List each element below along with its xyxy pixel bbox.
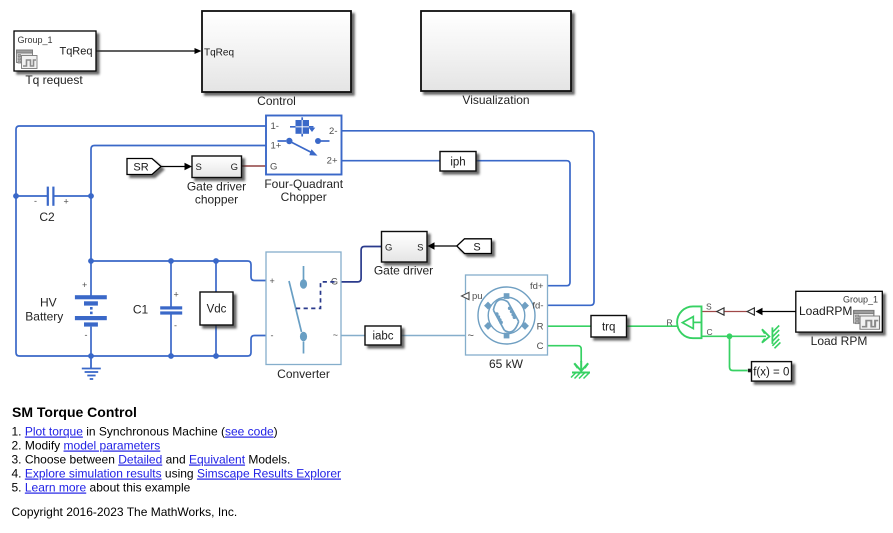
svg-text:3. Choose between Detailed and: 3. Choose between Detailed and Equivalen…	[12, 453, 291, 467]
block Control (subsystem)	[202, 11, 351, 92]
svg-text:5. Learn more about this examp: 5. Learn more about this example	[12, 481, 191, 495]
capacitor C1	[160, 306, 182, 314]
svg-text:-: -	[34, 196, 37, 206]
block Gate driver	[382, 232, 428, 263]
wire: chopper 1+ rail down to battery	[91, 146, 266, 296]
svg-text:chopper: chopper	[195, 193, 238, 207]
svg-text:Visualization: Visualization	[462, 93, 529, 107]
battery HV Battery	[75, 295, 107, 326]
ground mechanical rotational reference (down)	[571, 361, 590, 379]
svg-text:fd-: fd-	[532, 301, 543, 312]
svg-text:65 kW: 65 kW	[489, 357, 524, 371]
label Four-Quadrant Chopper	[264, 177, 343, 204]
capacitor C2	[47, 187, 55, 206]
wire: chopper 2+ through iph to machine fd+	[342, 161, 570, 286]
label C1 polarity	[174, 290, 179, 331]
svg-text:R: R	[537, 322, 544, 333]
block iph (current sensor display)	[440, 152, 476, 172]
wire: green inertia C to references	[702, 335, 767, 337]
svg-text:Gate driver: Gate driver	[374, 264, 433, 278]
wire: SR to gate driver chopper	[161, 166, 185, 168]
node: bus junction dots	[88, 258, 219, 359]
from tag SR	[127, 159, 161, 175]
svg-text:Group_1: Group_1	[18, 35, 53, 45]
svg-text:f(x) = 0: f(x) = 0	[753, 366, 789, 378]
svg-text:LoadRPM: LoadRPM	[799, 304, 852, 318]
machine stator outer circle	[478, 287, 535, 344]
wire: Tq request to Control signal	[97, 48, 202, 54]
svg-text:C: C	[537, 341, 544, 352]
svg-text:G: G	[231, 162, 238, 173]
svg-text:Copyright 2016-2023 The MathWo: Copyright 2016-2023 The MathWorks, Inc.	[12, 505, 238, 519]
svg-text:C: C	[707, 327, 713, 337]
svg-text:1. Plot torque in Synchronous: 1. Plot torque in Synchronous Machine (s…	[12, 425, 278, 439]
ground mechanical rotational reference (right)	[762, 326, 780, 349]
wire: battery bottom to bus	[90, 327, 92, 356]
svg-text:C1: C1	[133, 303, 149, 317]
from tag S	[457, 239, 492, 254]
svg-text:Gate driver: Gate driver	[187, 180, 246, 194]
svg-text:pu: pu	[472, 291, 483, 302]
block Visualization (subsystem)	[421, 11, 571, 91]
svg-text:S: S	[196, 162, 202, 173]
svg-text:2+: 2+	[327, 156, 338, 167]
machine rotor	[493, 300, 518, 333]
annotation list	[12, 425, 342, 495]
node: junction dots C2	[13, 193, 94, 199]
svg-text:R: R	[667, 318, 673, 328]
ground electrical reference	[82, 356, 101, 379]
svg-text:fd+: fd+	[530, 281, 544, 292]
label HV Battery	[25, 296, 63, 324]
block Converter	[266, 252, 341, 365]
svg-text:C2: C2	[39, 210, 55, 224]
svg-text:Battery: Battery	[25, 310, 63, 324]
block Gate driver chopper	[192, 156, 242, 178]
svg-text:-: -	[174, 321, 177, 331]
svg-text:Chopper: Chopper	[281, 190, 327, 204]
wire: dark red gate SR signal	[242, 165, 267, 167]
svg-text:+: +	[174, 290, 179, 300]
svg-text:TqReq: TqReq	[59, 46, 92, 58]
svg-text:+: +	[270, 276, 275, 286]
machine port labels	[472, 281, 544, 352]
svg-text:Vdc: Vdc	[207, 304, 227, 316]
svg-text:-: -	[271, 331, 274, 341]
svg-text:iph: iph	[450, 157, 465, 169]
svg-text:~: ~	[333, 330, 338, 340]
wire: C2 branch	[16, 195, 91, 197]
icon signal builder	[17, 50, 38, 69]
wire: navy gate driver to converter G	[342, 247, 382, 282]
wire: Vdc branch	[215, 261, 217, 356]
icon converter switch	[289, 266, 307, 354]
svg-text:S: S	[417, 243, 423, 254]
svg-text:trq: trq	[602, 322, 615, 334]
svg-text:S: S	[473, 242, 480, 254]
svg-text:Four-Quadrant: Four-Quadrant	[264, 177, 343, 191]
svg-text:~: ~	[468, 330, 474, 342]
svg-text:Converter: Converter	[277, 367, 330, 381]
label Gate driver chopper	[187, 180, 246, 207]
wire: chopper 2- to machine fd-	[342, 131, 594, 305]
block iabc (current sensor display)	[365, 326, 401, 345]
svg-text:G: G	[270, 162, 277, 173]
svg-text:TqReq: TqReq	[204, 47, 234, 58]
svg-text:SR: SR	[133, 162, 148, 174]
block Tq request (Group_1 signal source)	[14, 31, 96, 71]
block f(x)=0 solver	[748, 362, 792, 382]
svg-text:+: +	[64, 197, 69, 207]
svg-text:Group_1: Group_1	[843, 295, 878, 305]
label battery polarity	[82, 280, 88, 340]
wire: green machine C to rotational reference	[548, 346, 581, 362]
machine inner circle	[488, 297, 525, 334]
svg-text:+: +	[82, 280, 87, 290]
block Synchronous Machine 65 kW	[462, 275, 548, 355]
block inertia / motion sensor (green half-disc)	[667, 302, 713, 339]
machine pole markers	[484, 293, 529, 338]
svg-text:2. Modify model parameters: 2. Modify model parameters	[12, 439, 161, 453]
wire: positive DC bus to converter	[91, 261, 266, 281]
svg-text:HV: HV	[40, 296, 57, 310]
wire: green machine R to trq to inertia	[548, 325, 678, 327]
block Four-Quadrant Chopper	[266, 116, 342, 175]
svg-text:-: -	[85, 330, 88, 340]
svg-text:SM Torque Control: SM Torque Control	[12, 404, 137, 420]
svg-text:2-: 2-	[329, 126, 337, 137]
icon chopper bridge	[290, 117, 315, 136]
svg-text:G: G	[385, 243, 392, 254]
block Load RPM (Group_1 signal source)	[796, 291, 883, 332]
svg-text:Load RPM: Load RPM	[811, 334, 868, 348]
svg-text:Tq request: Tq request	[25, 73, 83, 87]
icon signal builder	[854, 310, 880, 329]
node: left DC rail + bottom bus wire	[16, 126, 266, 356]
block Vdc (voltage sensor display)	[200, 292, 233, 325]
wire: converter ~ to machine (light blue) under iabc	[341, 335, 466, 337]
wire: S tag to gate driver	[434, 245, 457, 247]
block trq (torque sensor display)	[591, 316, 627, 338]
svg-text:S: S	[706, 302, 712, 312]
machine pu port arrow	[462, 292, 470, 299]
icon chopper switch	[278, 138, 330, 156]
svg-text:iabc: iabc	[372, 331, 393, 343]
wire: gate dashed inside converter	[296, 282, 336, 309]
svg-text:1+: 1+	[271, 141, 282, 152]
wire: LoadRPM to inertia S (black + dark red with PS arrows)	[762, 311, 796, 313]
svg-text:4. Explore simulation results: 4. Explore simulation results using Sims…	[12, 467, 342, 481]
label C2 polarity	[34, 196, 69, 207]
svg-text:1-: 1-	[271, 121, 279, 132]
wire: C1 branch	[170, 261, 172, 356]
svg-text:Control: Control	[257, 94, 296, 108]
